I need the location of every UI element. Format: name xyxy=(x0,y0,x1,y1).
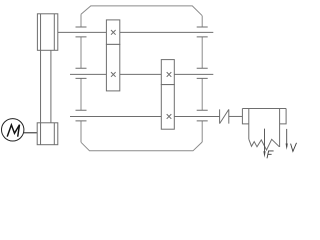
belt xyxy=(41,50,51,123)
bearing left wall shaft II xyxy=(76,68,87,78)
drum left flange xyxy=(242,109,248,124)
housing right wall segments xyxy=(201,16,203,142)
force F arrow xyxy=(263,129,265,158)
bearing right wall shaft I xyxy=(197,27,208,37)
shaft III (output) xyxy=(70,115,220,117)
drum right side xyxy=(279,109,281,147)
drum right flange xyxy=(280,109,287,124)
housing bottom edge with chamfers xyxy=(81,142,202,151)
housing top edge with chamfers xyxy=(81,6,202,16)
drum top xyxy=(242,108,286,110)
gear Z3 on shaft II xyxy=(161,60,174,85)
shaft I (input, from belt pulley) xyxy=(58,31,214,33)
bearing left wall shaft III xyxy=(76,110,87,121)
bearing left wall shaft I xyxy=(76,27,87,37)
velocity V arrow xyxy=(286,129,288,150)
label F xyxy=(267,151,274,158)
drum assembly xyxy=(242,109,286,147)
bearing right wall shaft III xyxy=(197,110,208,121)
gearbox housing outline (light layer) xyxy=(81,6,202,151)
gear Z1 on shaft I xyxy=(106,20,119,45)
pulley 1 on shaft I xyxy=(37,14,57,51)
pulley 2 on motor shaft xyxy=(37,123,58,145)
bearing right wall shaft II xyxy=(197,68,208,78)
rope zigzag under drum xyxy=(249,139,280,150)
motor label M xyxy=(7,125,19,137)
shaft II (intermediate) xyxy=(70,73,213,75)
motor M xyxy=(2,119,37,141)
gear Z2 on shaft II xyxy=(106,44,119,91)
housing left wall segments xyxy=(80,14,82,142)
gear Z4 on shaft III xyxy=(161,85,174,130)
drum left side xyxy=(248,109,250,140)
label V xyxy=(291,143,297,152)
coupling xyxy=(220,109,243,123)
